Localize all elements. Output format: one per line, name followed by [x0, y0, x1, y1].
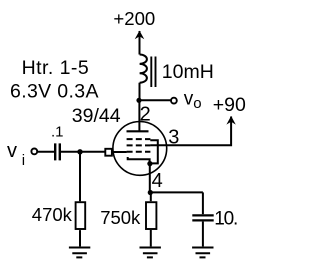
wire grid node down to R1	[79, 152, 81, 202]
grid terminal square	[105, 149, 112, 156]
coupling capacitor C1 plates	[55, 143, 60, 160]
svg-text:10.: 10.	[214, 209, 237, 230]
resistor R2 stem bottom	[150, 230, 152, 246]
node grid junction	[77, 149, 82, 154]
wire screen to +90	[150, 117, 231, 146]
cathode	[128, 157, 150, 164]
wire to vo terminal	[139, 99, 171, 101]
svg-text:+200: +200	[113, 8, 155, 29]
resistor R2 750k body	[146, 202, 156, 229]
svg-text:750k: 750k	[100, 207, 141, 228]
screen grid g2	[127, 144, 151, 146]
svg-text:470k: 470k	[32, 204, 73, 225]
svg-text:i: i	[22, 152, 25, 169]
cathode lead to pin 4	[149, 164, 151, 193]
ground right	[192, 248, 213, 258]
svg-text:Htr. 1-5: Htr. 1-5	[22, 57, 90, 79]
+90 supply arrow	[226, 116, 235, 125]
control grid g1	[127, 151, 151, 153]
wire square to control grid	[112, 151, 127, 153]
svg-text:3: 3	[168, 126, 179, 148]
wire coil to plate node	[139, 83, 141, 101]
svg-text:4: 4	[152, 170, 163, 192]
plate (anode)	[127, 130, 149, 132]
wire to bypass cap	[150, 191, 203, 193]
capacitor C2 stem top	[202, 192, 204, 214]
resistor R2 750k stem top	[150, 193, 152, 202]
svg-text:v: v	[184, 88, 194, 109]
ground middle	[140, 248, 161, 258]
input terminal vi	[31, 149, 37, 155]
vo terminal	[171, 98, 177, 104]
suppressor to cathode tie	[150, 140, 158, 163]
svg-text:39/44: 39/44	[72, 105, 121, 127]
svg-text:2: 2	[140, 103, 151, 125]
svg-text:v: v	[7, 140, 17, 162]
inductor L1 core	[151, 57, 155, 88]
wire vi to coupling cap	[38, 151, 54, 153]
svg-text:.1: .1	[51, 124, 64, 141]
svg-text:10mH: 10mH	[162, 61, 214, 83]
node cathode junction	[148, 190, 153, 195]
svg-text:+90: +90	[213, 94, 246, 116]
svg-text:o: o	[193, 95, 201, 112]
capacitor C2 stem bottom	[202, 222, 204, 247]
capacitor C2 plates	[192, 215, 213, 220]
ground left	[69, 248, 90, 258]
resistor R1 stem bottom	[79, 230, 81, 246]
suppressor grid g3	[127, 138, 151, 140]
wire cap to grid node to grid terminal	[61, 151, 105, 153]
+200 supply arrow	[135, 31, 145, 55]
node plate junction	[136, 98, 141, 103]
resistor R1 470k body	[76, 202, 86, 229]
tube V1 envelope	[113, 121, 167, 175]
node cathode dot	[147, 161, 152, 166]
svg-text:6.3V 0.3A: 6.3V 0.3A	[10, 81, 99, 103]
wire plate node to tube plate	[138, 100, 140, 131]
inductor L1 coil	[140, 55, 147, 83]
